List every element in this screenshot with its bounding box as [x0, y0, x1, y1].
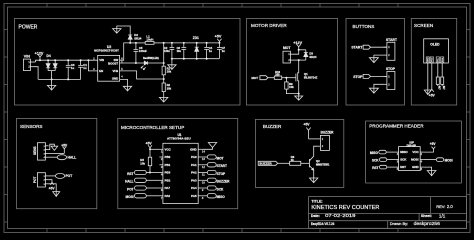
svg-text:EasyEDA V5.7.26: EasyEDA V5.7.26 [311, 222, 334, 226]
svg-text:TITLE:: TITLE: [311, 200, 322, 204]
svg-text:GND: GND [428, 57, 430, 62]
net flag HALL mcu [134, 178, 146, 182]
svg-text:10k: 10k [140, 162, 145, 166]
LED1 emission arrows [141, 66, 143, 68]
resistor R10 [274, 76, 281, 79]
svg-text:+5V: +5V [430, 142, 437, 146]
title block outline [309, 197, 467, 229]
svg-text:POT: POT [127, 187, 134, 191]
svg-text:Red/5W(LED): Red/5W(LED) [143, 57, 159, 60]
svg-text:RST: RST [400, 165, 406, 169]
svg-text:10k: 10k [289, 85, 294, 89]
svg-text:START: START [217, 164, 227, 168]
diode D4b [54, 60, 56, 63]
svg-text:GND: GND [190, 147, 197, 151]
svg-text:RST: RST [372, 166, 378, 170]
net flag SCK mcu [207, 186, 216, 190]
connector SENS [38, 143, 46, 160]
MOTOR DRIVER block outline [247, 18, 338, 105]
wire SCK mcu [202, 187, 208, 189]
svg-text:1u: 1u [222, 49, 225, 53]
svg-text:BUZZER: BUZZER [263, 124, 282, 129]
svg-text:SENSORS: SENSORS [20, 124, 42, 129]
net flag MOSI prog [436, 158, 443, 162]
connector MOT [283, 51, 290, 63]
svg-text:VCC: VCC [412, 150, 419, 154]
frame row ticks right [467, 30, 471, 223]
svg-text:PROGRAMMER HEADER: PROGRAMMER HEADER [369, 124, 424, 129]
svg-text:STOP: STOP [386, 67, 396, 71]
capacitor C6 [183, 42, 185, 44]
SCREEN block outline [411, 18, 456, 105]
node output divider [163, 62, 165, 64]
net flag MOSI mcu [134, 194, 146, 198]
svg-text:VFB: VFB [112, 69, 118, 73]
wire SENS pin4 to HALL [49, 156, 58, 158]
display U3 OLED body [424, 39, 449, 63]
wire STOP mcu [202, 172, 208, 174]
ground buzzer [313, 177, 315, 183]
svg-text:10k: 10k [167, 70, 172, 74]
ground divider [163, 92, 165, 97]
svg-text:GND: GND [412, 165, 419, 169]
ground power input [51, 78, 53, 80]
svg-text:MOTOR DRIVER: MOTOR DRIVER [251, 23, 287, 28]
wire BOOST [120, 62, 136, 64]
connector POT [38, 173, 46, 187]
svg-text:PB0: PB0 [165, 155, 171, 159]
ground mcu [208, 143, 216, 148]
svg-text:MISO: MISO [217, 195, 226, 199]
wire RST prog [387, 166, 395, 168]
svg-text:+5V: +5V [215, 35, 222, 39]
power flag +5V POT [50, 182, 54, 184]
svg-text:PA6: PA6 [165, 194, 171, 198]
wire BUZZER mcu [202, 179, 208, 181]
wire output rail [164, 42, 220, 44]
wire EN tie to VIN [87, 59, 89, 61]
svg-text:4k7: 4k7 [438, 86, 441, 91]
mcu U1 right pin stubs [198, 149, 202, 196]
frame row ticks left [4, 30, 8, 223]
wire buzzer pin1 to +5V [309, 138, 318, 140]
svg-text:100: 100 [275, 73, 280, 77]
resistor R3 [436, 77, 439, 84]
svg-text:HALL: HALL [68, 155, 77, 159]
svg-text:100nF: 100nF [139, 49, 147, 53]
svg-text:SCK: SCK [372, 158, 379, 162]
wire STOP pin2 to ground [374, 84, 384, 87]
title block sheet divider [418, 213, 420, 220]
wire MISO prog [386, 151, 395, 153]
wire buzzer base [278, 162, 290, 164]
title block row line 2 [309, 220, 467, 222]
net flag BUZZER mcu [207, 178, 216, 182]
net flag STOP mcu [207, 170, 216, 174]
svg-text:VIN: VIN [24, 55, 30, 59]
net flag START mcu [207, 163, 216, 167]
net flag MOT gate [260, 76, 268, 80]
diode D3 [305, 50, 307, 53]
wire VIN rail [33, 61, 36, 63]
svg-text:PA4: PA4 [191, 186, 197, 190]
svg-text:14: 14 [202, 149, 206, 153]
svg-text:SCK: SCK [400, 158, 407, 162]
svg-text:MOT: MOT [251, 76, 258, 80]
wire VCC to +5V prog [424, 149, 434, 152]
svg-text:4k7: 4k7 [442, 86, 445, 91]
wire SENS pin3 to +5V [49, 152, 65, 154]
svg-text:EN: EN [99, 69, 103, 73]
svg-text:BOOST: BOOST [108, 62, 118, 66]
wire R3 stub [437, 84, 439, 86]
wire POT pin3 to ground [49, 184, 57, 191]
resistor R2 [162, 83, 165, 92]
ground U2 GND pin [120, 79, 128, 85]
wire GND to ground prog [424, 167, 432, 169]
ground D2 [116, 28, 118, 34]
transistor Q2 [308, 159, 310, 167]
svg-text:STOP: STOP [353, 75, 363, 79]
svg-text:SDA: SDA [441, 57, 444, 62]
svg-text:START: START [386, 38, 398, 42]
ground START [373, 57, 375, 63]
svg-text:10u: 10u [177, 49, 182, 53]
svg-text:ATTINY84A-SSU: ATTINY84A-SSU [167, 137, 191, 141]
net flag POT mcu [134, 186, 146, 190]
svg-text:SCREEN: SCREEN [414, 23, 433, 28]
wire MOSI mcu left [146, 195, 159, 197]
svg-text:BUZZER: BUZZER [217, 180, 231, 184]
wire GND mcu [202, 148, 213, 150]
wire VFB feedback [120, 71, 164, 79]
svg-text:MOT: MOT [283, 46, 291, 50]
svg-text:12: 12 [202, 165, 206, 169]
wire top rail to ground via D2 [117, 26, 130, 35]
svg-text:MOT: MOT [217, 156, 224, 160]
wire R9 to ground [286, 89, 298, 94]
frame column ticks top [47, 4, 398, 8]
svg-text:REV:: REV: [436, 204, 445, 209]
wire OLED VCC [431, 63, 433, 90]
MICROCONTROLLER SETUP block outline [118, 118, 238, 208]
svg-text:1u: 1u [71, 66, 75, 70]
svg-text:+5V: +5V [303, 122, 310, 126]
header ISP left stubs [395, 152, 399, 167]
svg-text:1u: 1u [209, 49, 212, 53]
ground STOP [373, 87, 375, 93]
svg-text:deskpro256: deskpro256 [414, 221, 441, 226]
svg-text:BUZZER: BUZZER [321, 131, 335, 135]
power flag +5V SENS [63, 149, 65, 154]
capacitor C3 [67, 60, 69, 65]
svg-text:IRLR0714Z: IRLR0714Z [304, 75, 318, 79]
svg-text:MOSI: MOSI [411, 158, 419, 162]
svg-text:RST: RST [127, 172, 133, 176]
svg-text:MICROCONTROLLER SETUP: MICROCONTROLLER SETUP [121, 125, 184, 130]
svg-text:SR24: SR24 [134, 36, 141, 40]
svg-text:PA5: PA5 [191, 194, 197, 198]
svg-text:+5V: +5V [49, 187, 56, 191]
wire R5 to RST [149, 166, 151, 173]
wire SW rail to L1 [130, 42, 145, 44]
connector BUZZER [320, 135, 329, 150]
wire SENS pin2 to ground [49, 144, 55, 149]
title block REV divider [430, 197, 432, 214]
svg-text:11: 11 [202, 173, 205, 177]
svg-text:+5V: +5V [61, 143, 68, 147]
svg-text:PA2: PA2 [191, 171, 197, 175]
svg-text:MISO: MISO [370, 151, 379, 155]
svg-text:10uH: 10uH [146, 38, 153, 42]
header ISP body [399, 147, 421, 171]
svg-text:Date:: Date: [311, 214, 320, 218]
svg-text:ZD1: ZD1 [193, 36, 199, 40]
svg-text:MCP16301T-I/CHY: MCP16301T-I/CHY [94, 49, 119, 53]
wire emitter to ground [313, 170, 315, 177]
header ISP right stubs [420, 152, 424, 167]
wire drain [298, 60, 300, 73]
BUZZER block outline [255, 119, 343, 187]
wire POT pin1 to POT port [49, 175, 56, 177]
wire diode pair to bus [48, 70, 55, 72]
wire R1 to R2 [163, 75, 165, 83]
regulator U2 body [98, 55, 120, 81]
wire MOT pin1 to +12V [293, 50, 299, 54]
capacitor C7 [218, 43, 220, 48]
BUTTONS block outline [346, 18, 405, 105]
wire POT pin2 to +5V [49, 180, 52, 183]
OLED pin boxes [426, 57, 429, 63]
svg-text:BUZZER: BUZZER [259, 161, 272, 165]
POWER block outline [15, 18, 241, 105]
wire MISO mcu [202, 195, 208, 197]
wire STOP [371, 75, 387, 77]
svg-text:1u: 1u [83, 66, 87, 70]
svg-text:BUTTONS: BUTTONS [353, 24, 375, 29]
resistor R6 [290, 161, 301, 165]
net flag RST prog [379, 165, 386, 169]
wire VIN pin2 to ground bus [33, 67, 38, 80]
svg-text:START: START [351, 46, 363, 50]
wire MOT mcu [202, 156, 208, 158]
svg-text:VCC: VCC [165, 147, 172, 151]
wire START mcu [202, 164, 208, 166]
wire R4 stub [441, 84, 443, 86]
wire RST mcu left [146, 172, 159, 174]
wire L1 to output node [154, 42, 164, 44]
wire POT mcu left [146, 187, 159, 189]
mcu U1 body [163, 143, 198, 203]
svg-text:PB3: PB3 [165, 171, 171, 175]
net flag MOT mcu [207, 155, 216, 159]
svg-text:SCK: SCK [217, 187, 224, 191]
svg-text:+5V: +5V [429, 94, 436, 98]
wire OLED SCL [437, 63, 439, 77]
svg-text:SR24: SR24 [309, 55, 316, 59]
svg-text:POT: POT [33, 176, 37, 183]
svg-text:MMBT5551: MMBT5551 [316, 162, 330, 166]
svg-text:+12V: +12V [293, 41, 302, 45]
svg-text:PB1: PB1 [165, 163, 171, 167]
svg-text:VCC: VCC [432, 57, 434, 62]
svg-text:VIN: VIN [99, 58, 104, 62]
ground bus wire [38, 78, 81, 80]
svg-text:MOSI: MOSI [445, 158, 453, 162]
svg-text:POT: POT [66, 174, 73, 178]
capacitor C1 [80, 60, 82, 65]
svg-text:D4: D4 [46, 54, 50, 58]
svg-text:13: 13 [202, 157, 206, 161]
net port HALL [57, 155, 66, 160]
svg-text:HALL: HALL [125, 180, 133, 184]
svg-text:PA7: PA7 [165, 186, 171, 190]
ground POT [55, 191, 57, 197]
PROGRAMMER HEADER block outline [366, 121, 462, 183]
svg-text:PA0: PA0 [191, 155, 197, 159]
wire buzzer pin2 to collector [314, 146, 317, 156]
resistor R4 [441, 77, 444, 84]
svg-text:2.0: 2.0 [447, 204, 453, 209]
svg-text:STOP: STOP [217, 172, 226, 176]
svg-text:Q2: Q2 [316, 159, 320, 163]
svg-text:KINETICS REV COUNTER: KINETICS REV COUNTER [311, 205, 379, 211]
svg-text:07-02-2019: 07-02-2019 [325, 213, 356, 218]
SENSORS block outline [17, 118, 97, 208]
capacitor C4 [206, 42, 208, 44]
svg-text:PB2: PB2 [165, 178, 171, 182]
svg-text:OLED: OLED [430, 42, 440, 46]
resistor R9 [285, 78, 287, 82]
capacitor C5 [135, 42, 137, 44]
wire R10 to gate [282, 77, 296, 79]
power flag +5V OLED [430, 89, 434, 92]
wire START pin2 to ground [374, 55, 384, 57]
svg-text:+12V: +12V [35, 52, 44, 56]
title block row line 1 [309, 212, 467, 214]
frame column ticks bottom [47, 229, 398, 233]
wire R6 to base [301, 162, 310, 164]
power flag +5V prog [432, 147, 436, 149]
ground prog [431, 170, 433, 176]
resistor R5 [149, 149, 151, 157]
title block drawnby divider [387, 221, 389, 229]
wire HALL mcu left [146, 179, 159, 181]
wire MOSI prog [424, 159, 437, 161]
diode D4a [47, 60, 49, 63]
ground SENS [51, 146, 58, 150]
net flag MISO prog [379, 150, 386, 154]
net flag SCK prog [379, 158, 386, 162]
svg-text:+5V: +5V [146, 142, 153, 146]
net port POT [55, 173, 64, 178]
net flag RST mcu [134, 170, 146, 174]
svg-text:MOSI: MOSI [126, 195, 134, 199]
wire MOT pin2 to drain node [293, 59, 306, 61]
svg-text:SENS: SENS [33, 146, 37, 155]
svg-text:Drawn By:: Drawn By: [390, 221, 408, 226]
transistor Q1 [298, 72, 299, 74]
wire +12V to D3 [299, 49, 306, 51]
wire SW to top rail [120, 43, 131, 60]
svg-text:POWER: POWER [19, 25, 38, 31]
svg-text:PA1: PA1 [191, 163, 197, 167]
svg-text:1/1: 1/1 [439, 213, 446, 218]
net flag BUZZER [258, 161, 278, 165]
svg-text:1k: 1k [291, 158, 295, 162]
svg-text:PA3: PA3 [191, 178, 197, 182]
svg-text:Sheet:: Sheet: [421, 214, 432, 218]
diode D2 [128, 34, 132, 36]
wire SCK prog [387, 159, 395, 161]
wire gate [268, 77, 274, 79]
ground OLED [427, 89, 429, 95]
wire START [371, 46, 387, 48]
svg-text:10k: 10k [167, 86, 172, 90]
ground output [171, 58, 173, 60]
svg-text:MISO: MISO [400, 150, 408, 154]
resistor R1 [162, 66, 165, 75]
wire output ground bus [172, 58, 220, 60]
connector VIN [23, 59, 30, 70]
connector STOP header [387, 72, 395, 90]
ground motor [298, 94, 300, 95]
svg-text:10: 10 [202, 180, 206, 184]
connector START header [387, 42, 395, 60]
svg-text:GND: GND [112, 76, 118, 80]
wire OLED GND [427, 63, 429, 89]
mcu U1 left pin stubs [159, 149, 163, 196]
wire OLED SDA [441, 63, 443, 77]
wire VCC [150, 148, 159, 150]
capacitor C2 [171, 42, 173, 44]
svg-text:100n: 100n [164, 49, 170, 53]
net flag MISO mcu [207, 194, 216, 198]
